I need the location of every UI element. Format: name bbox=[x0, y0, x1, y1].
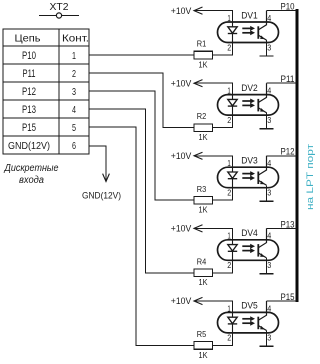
wire +10V to DV1 pin 1 bbox=[194, 11, 233, 23]
node label P12 bbox=[281, 147, 295, 157]
table row circuit name GND(12V) bbox=[8, 141, 50, 152]
DV4 pin 1 number bbox=[227, 231, 231, 241]
svg-text:4: 4 bbox=[267, 231, 271, 241]
svg-text:1: 1 bbox=[227, 158, 231, 168]
svg-text:на LPT порт: на LPT порт bbox=[305, 143, 316, 210]
table row circuit name P13 bbox=[22, 104, 36, 116]
wire P12 from table pin3 to R3 bbox=[89, 91, 194, 200]
svg-text:1K: 1K bbox=[199, 205, 208, 215]
svg-text:GND(12V): GND(12V) bbox=[8, 141, 50, 152]
optocoupler DV1 designator label bbox=[241, 10, 258, 20]
resistor R3 designator label bbox=[197, 184, 207, 194]
ground symbol below DV1 bbox=[260, 55, 274, 57]
table row contact number 6 bbox=[72, 140, 76, 152]
optocoupler DV3 body bbox=[218, 167, 279, 188]
svg-text:3: 3 bbox=[267, 115, 271, 125]
svg-text:4: 4 bbox=[72, 104, 76, 116]
+10V supply arrow for DV4 bbox=[194, 225, 203, 232]
node label P10 bbox=[281, 2, 295, 12]
optocoupler DV5 designator label bbox=[241, 301, 258, 311]
svg-text:P13: P13 bbox=[281, 219, 295, 229]
svg-text:Конт.: Конт. bbox=[62, 32, 89, 44]
wire GND(12V) from table pin6 bbox=[89, 146, 109, 182]
DV3 pin 3 number bbox=[267, 188, 271, 198]
DV4 pin 2 number bbox=[227, 260, 231, 270]
resistor R2 value label 1K bbox=[199, 132, 208, 142]
svg-text:2: 2 bbox=[227, 115, 231, 125]
connector XT2 label bbox=[50, 2, 69, 13]
svg-text:2: 2 bbox=[227, 260, 231, 270]
caption: Diskretnye vhoda (discrete inputs) bbox=[4, 163, 59, 186]
svg-text:3: 3 bbox=[267, 260, 271, 270]
wire DV5 pin 4 to bus node P15 bbox=[267, 300, 297, 302]
DV3 light arrows bbox=[242, 171, 255, 180]
table row circuit name P11 bbox=[23, 68, 36, 80]
wire DV2 pin 2 to R2 bbox=[213, 115, 233, 128]
svg-text:+10V: +10V bbox=[171, 151, 192, 161]
table row circuit name P12 bbox=[22, 86, 36, 98]
+10V supply label for DV5 bbox=[171, 296, 192, 306]
ground symbol below DV4 bbox=[260, 273, 274, 275]
table row circuit name P10 bbox=[22, 50, 36, 62]
svg-text:1: 1 bbox=[72, 50, 76, 62]
table row circuit name P15 bbox=[22, 122, 36, 134]
table row contact number 2 bbox=[72, 68, 76, 80]
+10V supply arrow for DV3 bbox=[194, 152, 203, 159]
table row contact number 3 bbox=[72, 86, 76, 98]
resistor R4 bbox=[194, 269, 213, 277]
svg-text:P12: P12 bbox=[22, 86, 36, 98]
net label GND(12V) bbox=[82, 191, 121, 202]
+10V supply arrow for DV1 bbox=[194, 7, 203, 14]
optocoupler DV3 designator label bbox=[241, 156, 258, 166]
svg-text:2: 2 bbox=[227, 188, 231, 198]
svg-text:Цепь: Цепь bbox=[15, 32, 42, 44]
DV5 light arrows bbox=[242, 316, 255, 325]
svg-text:2: 2 bbox=[72, 68, 76, 80]
svg-text:P15: P15 bbox=[22, 122, 36, 134]
wire P11 from table pin2 to R2 bbox=[89, 73, 194, 128]
svg-text:4: 4 bbox=[267, 86, 271, 96]
svg-text:XT2: XT2 bbox=[50, 2, 69, 13]
svg-text:+10V: +10V bbox=[171, 78, 192, 88]
svg-text:+10V: +10V bbox=[171, 6, 192, 16]
DV3 pin 1 number bbox=[227, 158, 231, 168]
svg-text:1K: 1K bbox=[199, 132, 208, 142]
table header cell: Kont. (contact) bbox=[62, 32, 89, 44]
optocoupler DV1 body bbox=[218, 22, 279, 43]
svg-text:R3: R3 bbox=[197, 184, 207, 194]
wire +10V to DV2 pin 1 bbox=[194, 83, 233, 95]
wire P10 from table pin1 to R1 bbox=[89, 54, 194, 56]
wire DV3 pin 4 to bus node P12 bbox=[267, 155, 297, 157]
+10V supply label for DV2 bbox=[171, 78, 192, 88]
table row contact number 1 bbox=[72, 50, 76, 62]
resistor R1 designator label bbox=[197, 39, 207, 49]
+10V supply arrow for DV2 bbox=[194, 80, 203, 87]
wire DV4 pin 2 to R4 bbox=[213, 260, 233, 273]
wire DV2 pin 3 to ground bbox=[266, 113, 268, 129]
resistor R1 bbox=[194, 51, 213, 59]
wire DV1 pin 3 to ground bbox=[266, 40, 268, 56]
svg-text:1: 1 bbox=[227, 13, 231, 23]
wire P13 from table pin4 to R4 bbox=[89, 109, 194, 273]
DV4 pin 4 number bbox=[267, 231, 271, 241]
DV5 pin 3 number bbox=[267, 333, 271, 343]
svg-text:2: 2 bbox=[227, 333, 231, 343]
wire DV2 pin 4 to bus node P11 bbox=[267, 82, 297, 84]
svg-text:DV2: DV2 bbox=[241, 83, 258, 93]
optocoupler DV2 body bbox=[218, 95, 279, 116]
DV2 pin 1 number bbox=[227, 86, 231, 96]
svg-text:1K: 1K bbox=[199, 350, 208, 360]
resistor R2 bbox=[194, 124, 213, 132]
connector XT2 symbol bbox=[39, 13, 79, 18]
svg-text:5: 5 bbox=[72, 122, 76, 134]
svg-text:1K: 1K bbox=[199, 59, 208, 69]
svg-text:3: 3 bbox=[72, 86, 76, 98]
ground symbol below DV5 bbox=[260, 345, 274, 347]
+10V supply label for DV3 bbox=[171, 151, 192, 161]
svg-text:P11: P11 bbox=[23, 68, 36, 80]
node label P11 bbox=[281, 74, 295, 84]
svg-text:P12: P12 bbox=[281, 147, 295, 157]
DV2 pin 2 number bbox=[227, 115, 231, 125]
DV3 LED (emitting diode) bbox=[228, 167, 237, 188]
wire DV3 pin 2 to R3 bbox=[213, 188, 233, 201]
DV1 pin 4 number bbox=[267, 13, 271, 23]
svg-text:входа: входа bbox=[19, 175, 44, 186]
resistor R5 bbox=[194, 342, 213, 350]
wire +10V to DV3 pin 1 bbox=[194, 156, 233, 168]
DV3 pin 2 number bbox=[227, 188, 231, 198]
wire DV4 pin 3 to ground bbox=[266, 258, 268, 274]
resistor R3 bbox=[194, 196, 213, 204]
LPT bus (thick line) bbox=[296, 9, 299, 302]
svg-text:2: 2 bbox=[227, 42, 231, 52]
wire DV5 pin 3 to ground bbox=[266, 331, 268, 347]
node label P13 bbox=[281, 219, 295, 229]
+10V supply label for DV1 bbox=[171, 6, 192, 16]
DV4 pin 3 number bbox=[267, 260, 271, 270]
wire DV5 pin 2 to R5 bbox=[213, 333, 233, 346]
DV5 pin 2 number bbox=[227, 333, 231, 343]
DV1 pin 3 number bbox=[267, 42, 271, 52]
svg-text:R2: R2 bbox=[197, 111, 207, 121]
DV1 pin 1 number bbox=[227, 13, 231, 23]
resistor R5 value label 1K bbox=[199, 350, 208, 360]
resistor R2 designator label bbox=[197, 111, 207, 121]
DV4 LED (emitting diode) bbox=[228, 240, 237, 260]
wire +10V to DV5 pin 1 bbox=[194, 301, 233, 313]
wire DV1 pin 2 to R1 bbox=[213, 43, 233, 56]
svg-text:R1: R1 bbox=[197, 39, 207, 49]
DV2 pin 4 number bbox=[267, 86, 271, 96]
resistor R3 value label 1K bbox=[199, 205, 208, 215]
resistor R5 designator label bbox=[197, 329, 207, 339]
wire P15 from table pin5 to R5 bbox=[89, 127, 194, 345]
svg-text:+10V: +10V bbox=[171, 224, 192, 234]
DV2 LED (emitting diode) bbox=[228, 95, 237, 116]
DV4 phototransistor bbox=[258, 228, 266, 258]
svg-text:4: 4 bbox=[267, 158, 271, 168]
DV1 pin 2 number bbox=[227, 42, 231, 52]
svg-text:DV4: DV4 bbox=[241, 228, 258, 238]
ground symbol below DV2 bbox=[260, 128, 274, 130]
DV3 pin 4 number bbox=[267, 158, 271, 168]
wire DV3 pin 3 to ground bbox=[266, 185, 268, 201]
svg-text:3: 3 bbox=[267, 42, 271, 52]
DV5 LED (emitting diode) bbox=[228, 312, 237, 333]
DV2 phototransistor bbox=[258, 83, 266, 113]
wire DV1 pin 4 to bus node P10 bbox=[267, 10, 297, 12]
svg-text:DV5: DV5 bbox=[241, 301, 258, 311]
node label P15 bbox=[281, 292, 295, 302]
svg-text:GND(12V): GND(12V) bbox=[82, 191, 121, 202]
svg-text:+10V: +10V bbox=[171, 296, 192, 306]
connector XT2 table frame bbox=[3, 29, 89, 154]
optocoupler DV5 body bbox=[218, 312, 279, 333]
resistor R1 value label 1K bbox=[199, 59, 208, 69]
DV5 phototransistor bbox=[258, 301, 266, 331]
resistor R4 value label 1K bbox=[199, 277, 208, 287]
table row contact number 4 bbox=[72, 104, 76, 116]
svg-text:DV1: DV1 bbox=[241, 10, 258, 20]
DV5 pin 1 number bbox=[227, 303, 231, 313]
svg-text:R4: R4 bbox=[197, 256, 207, 266]
wire +10V to DV4 pin 1 bbox=[194, 228, 233, 240]
optocoupler DV4 designator label bbox=[241, 228, 258, 238]
svg-text:P15: P15 bbox=[281, 292, 295, 302]
svg-text:1K: 1K bbox=[199, 277, 208, 287]
svg-text:1: 1 bbox=[227, 303, 231, 313]
optocoupler DV4 body bbox=[218, 240, 279, 260]
svg-text:P11: P11 bbox=[281, 74, 295, 84]
DV2 pin 3 number bbox=[267, 115, 271, 125]
svg-text:3: 3 bbox=[267, 333, 271, 343]
DV1 LED (emitting diode) bbox=[228, 22, 237, 43]
DV1 phototransistor bbox=[258, 11, 266, 40]
table row contact number 5 bbox=[72, 122, 76, 134]
optocoupler DV2 designator label bbox=[241, 83, 258, 93]
DV5 pin 4 number bbox=[267, 303, 271, 313]
+10V supply arrow for DV5 bbox=[194, 297, 203, 304]
bus label: na LPT port bbox=[305, 143, 316, 210]
+10V supply label for DV4 bbox=[171, 224, 192, 234]
DV3 phototransistor bbox=[258, 156, 266, 186]
svg-text:1: 1 bbox=[227, 86, 231, 96]
svg-text:3: 3 bbox=[267, 188, 271, 198]
svg-text:4: 4 bbox=[267, 13, 271, 23]
svg-text:P13: P13 bbox=[22, 104, 36, 116]
wire DV4 pin 4 to bus node P13 bbox=[267, 227, 297, 229]
resistor R4 designator label bbox=[197, 256, 207, 266]
svg-text:4: 4 bbox=[267, 303, 271, 313]
DV2 light arrows bbox=[242, 99, 255, 108]
table header cell: Cep (circuit) bbox=[15, 32, 42, 44]
svg-text:6: 6 bbox=[72, 140, 76, 152]
svg-text:Дискретные: Дискретные bbox=[4, 163, 59, 174]
DV4 light arrows bbox=[242, 244, 255, 253]
svg-text:DV3: DV3 bbox=[241, 156, 258, 166]
DV1 light arrows bbox=[242, 26, 255, 35]
ground symbol below DV3 bbox=[260, 200, 274, 202]
svg-text:1: 1 bbox=[227, 231, 231, 241]
svg-text:P10: P10 bbox=[22, 50, 36, 62]
svg-text:P10: P10 bbox=[281, 2, 295, 12]
svg-text:R5: R5 bbox=[197, 329, 207, 339]
